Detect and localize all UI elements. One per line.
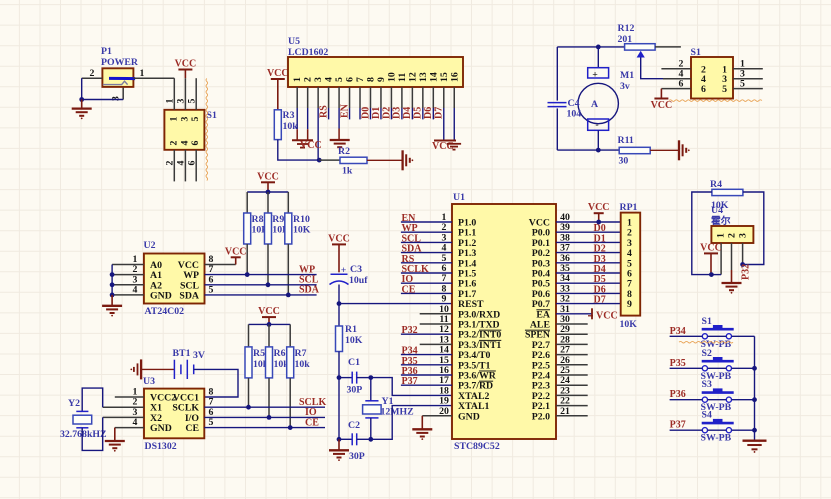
svg-text:A: A (591, 99, 598, 110)
wire VCC rail R5R6R7 (249, 323, 291, 325)
svg-text:1k: 1k (342, 166, 353, 177)
error squiggle under switch S1 (679, 341, 733, 343)
svg-text:P1: P1 (101, 46, 112, 57)
svg-text:U3: U3 (143, 376, 155, 387)
svg-text:STC89C52: STC89C52 (454, 441, 500, 452)
switch S2 button bar (702, 360, 734, 363)
wire P1 to S1 pin1 corner (173, 78, 175, 110)
svg-text:CE: CE (402, 284, 416, 295)
wire R9 top (267, 192, 269, 213)
switch S1 button bar (702, 328, 734, 331)
crystal Y1 bottom plate (365, 417, 378, 419)
svg-text:5: 5 (190, 116, 201, 121)
VCC power port at U1 pin 40 (598, 213, 600, 222)
svg-text:9: 9 (376, 77, 387, 82)
svg-text:3: 3 (111, 96, 122, 101)
capacitor C2 plates (351, 433, 353, 445)
junction dot top rail at motor (596, 45, 601, 50)
svg-text:5: 5 (209, 417, 214, 428)
U1 pin 13 stub (420, 343, 452, 345)
svg-text:P2.0: P2.0 (532, 411, 550, 422)
svg-text:U2: U2 (144, 240, 156, 251)
svg-text:R5: R5 (253, 348, 265, 359)
wire S2 contacts (708, 367, 727, 369)
svg-text:S4: S4 (702, 410, 712, 421)
svg-text:POWER: POWER (101, 57, 139, 68)
motor M1 minus terminal box (588, 119, 609, 130)
wire R6 bottom to IO (268, 378, 270, 417)
wire R8 bottom to WP (246, 244, 248, 275)
resistor R4 body (712, 189, 743, 195)
svg-text:R12: R12 (618, 23, 635, 34)
svg-text:10K: 10K (293, 225, 311, 236)
svg-text:S1: S1 (207, 110, 217, 121)
U1 pin 40 wire to RP1 pin 1 (556, 221, 621, 223)
P1 pin 3 wire down and left to ground node (122, 88, 124, 100)
resistor R6 body (266, 347, 273, 378)
svg-text:30P: 30P (347, 385, 363, 396)
wire R4 left down to VCC node (692, 192, 712, 275)
wire R6 top (268, 324, 270, 347)
P1 pin 1 wire to S1 (133, 77, 174, 79)
ground below U4 pin2 (722, 282, 742, 284)
U3 IO wire (204, 416, 325, 418)
U1 pin 14 wire with net label P34 (401, 354, 452, 356)
wire S1 to bus (732, 335, 755, 337)
U4 pin1 line down (720, 243, 722, 275)
U1 pin 29 stub (556, 333, 588, 335)
resistor R8 body (244, 213, 251, 244)
U2 left pin wires (112, 264, 144, 266)
U1 pin 34 wire to RP1 pin 7 (556, 282, 621, 284)
junction dot crystal bottom node (368, 437, 373, 442)
ground below C2 column (338, 439, 340, 450)
U4 pin3 line down (742, 243, 744, 265)
U3 CE wire (204, 427, 325, 429)
svg-text:CE: CE (305, 417, 319, 428)
svg-text:4: 4 (176, 160, 187, 165)
S1 connector body (164, 110, 204, 150)
U1 pin 7 wire with net label IO (401, 282, 452, 284)
svg-text:RS: RS (319, 105, 330, 118)
U1 pin 16 wire with net label P36 (401, 374, 452, 376)
svg-text:6: 6 (190, 140, 201, 145)
svg-text:S1: S1 (702, 316, 712, 327)
wire R5 top (248, 324, 250, 347)
P1 pin 2 wire (82, 77, 103, 79)
bottom rail wire (557, 149, 619, 151)
U1 body (452, 204, 556, 439)
resistor R1 body (336, 326, 343, 352)
svg-text:5: 5 (740, 78, 745, 89)
U1 pin 10 stub (420, 313, 452, 315)
svg-text:P36: P36 (670, 389, 686, 400)
U1 pin 12 wire with net label P32 (401, 333, 452, 335)
LCD1602 header body (288, 57, 463, 87)
wire R8 top (246, 192, 248, 213)
svg-text:8: 8 (365, 77, 376, 82)
svg-text:GND: GND (150, 290, 172, 301)
U1 pin 3 wire with net label SCL (401, 241, 452, 243)
svg-text:D7: D7 (594, 295, 606, 306)
wire ground to battery (141, 368, 174, 370)
resistor R3 body (274, 110, 281, 140)
svg-text:7: 7 (355, 77, 366, 82)
wire C3 to REST node (338, 285, 340, 304)
wire S3 to bus (732, 399, 755, 401)
svg-text:15: 15 (439, 72, 450, 82)
wire R5 bottom to SCLK (248, 378, 250, 407)
S1 pin6 wire to VCC (661, 88, 691, 90)
svg-text:VCC: VCC (328, 233, 350, 244)
svg-text:-: - (595, 120, 598, 131)
svg-text:VCC: VCC (258, 306, 280, 317)
svg-text:14: 14 (428, 72, 439, 82)
svg-text:9: 9 (627, 299, 632, 310)
svg-text:4: 4 (133, 284, 138, 295)
svg-text:6: 6 (701, 84, 706, 95)
wire pin2 down to ground node (81, 78, 83, 99)
svg-text:10uf: 10uf (349, 275, 368, 286)
wire crystal Y2 bottom loop to X2 (82, 417, 103, 450)
connector P1 body (102, 68, 133, 87)
wire P34 to S1 (670, 335, 703, 337)
svg-text:C1: C1 (348, 357, 360, 368)
motor M1 wire from top rail (597, 47, 599, 68)
svg-text:1: 1 (292, 77, 303, 82)
wire R10 top (287, 192, 289, 213)
wire C2 row left (339, 438, 352, 440)
ground at U1 pin 20 (421, 416, 423, 430)
S1 pin 3 line (184, 78, 186, 110)
S1 pin 5 line (195, 78, 197, 110)
switch S3 contacts (702, 397, 707, 402)
svg-text:C4: C4 (568, 98, 580, 109)
U3 body (144, 389, 204, 439)
svg-text:GND: GND (458, 411, 480, 422)
switch lever inside P1 (109, 77, 135, 80)
wire crystal bottom (370, 418, 372, 439)
svg-text:VCC: VCC (588, 202, 610, 213)
wire R12 right stub (655, 46, 681, 48)
svg-text:D1: D1 (371, 107, 382, 119)
svg-text:VCC: VCC (267, 68, 289, 79)
wire R2 to right ground (367, 159, 403, 161)
svg-text:VCC: VCC (175, 59, 197, 70)
svg-text:2: 2 (303, 77, 314, 82)
U1 pin 25 stub (556, 374, 588, 376)
svg-text:11: 11 (397, 73, 408, 82)
svg-text:6: 6 (345, 77, 356, 82)
wire P36 to S3 (670, 399, 703, 401)
ground right of R2 rotated (401, 150, 403, 170)
wire S3 contacts (708, 399, 727, 401)
U1 pin 35 wire to RP1 pin 6 (556, 272, 621, 274)
svg-text:R10: R10 (293, 214, 310, 225)
U3 pin2 wire to crystal (103, 406, 144, 408)
R3 bottom wire to divider node (278, 140, 319, 161)
wire VCC rail of pullups (247, 191, 288, 193)
U1 pin 21 stub (556, 415, 588, 417)
svg-text:U5: U5 (288, 36, 300, 47)
wire divider node to R2 (319, 159, 340, 161)
svg-text:104: 104 (567, 109, 582, 120)
svg-text:VCC: VCC (651, 100, 673, 111)
svg-text:P35: P35 (670, 358, 686, 369)
svg-text:3v: 3v (620, 81, 630, 92)
S1 pin2 stub (661, 68, 691, 70)
U1 pin 8 wire with net label CE (401, 292, 452, 294)
svg-text:1: 1 (168, 116, 179, 121)
svg-text:VCC: VCC (700, 242, 722, 253)
wire REST node to U1 pin9 (339, 303, 452, 305)
wire left column R1C1C2 (338, 378, 340, 440)
svg-text:VCC: VCC (257, 171, 279, 182)
svg-text:+: + (592, 70, 598, 81)
U1 pin 33 wire to RP1 pin 8 (556, 292, 621, 294)
svg-text:BT1: BT1 (173, 348, 191, 359)
ground right of R11 rotated (678, 140, 680, 160)
U1 pin 11 stub (420, 323, 452, 325)
U1 pin 31 EA wire to VCC (556, 313, 592, 315)
wire S1 contacts (708, 335, 727, 337)
svg-text:4: 4 (179, 140, 190, 145)
U2 SDA wire (205, 294, 317, 296)
svg-text:R2: R2 (338, 146, 350, 157)
svg-text:CE: CE (185, 423, 199, 434)
svg-text:P32: P32 (741, 264, 752, 280)
junction dot C1 left (337, 375, 342, 380)
junction dot REST node (337, 301, 342, 306)
resistor R2 body (340, 157, 367, 163)
switch S1 contacts (702, 334, 707, 339)
svg-text:1: 1 (140, 68, 145, 79)
junction dot crystal top node (368, 375, 373, 380)
svg-text:30: 30 (619, 156, 629, 167)
svg-text:P37: P37 (670, 420, 686, 431)
svg-text:3: 3 (179, 116, 190, 121)
svg-text:R7: R7 (295, 348, 307, 359)
svg-text:3: 3 (313, 77, 324, 82)
crystal Y2 body (73, 415, 92, 424)
svg-text:5: 5 (334, 77, 345, 82)
svg-text:D0: D0 (360, 107, 371, 119)
svg-text:VCC: VCC (596, 310, 618, 321)
motor M1 circle (578, 83, 618, 123)
svg-text:2: 2 (727, 233, 738, 238)
junction dot bus at S2 (752, 366, 757, 371)
svg-text:C3: C3 (350, 264, 362, 275)
capacitor C4 left branch wire upper (556, 47, 558, 101)
svg-text:D3: D3 (392, 107, 403, 119)
U3 SCLK wire (204, 406, 325, 408)
svg-text:D6: D6 (423, 107, 434, 119)
junction dot U4 pin3 P32 (740, 262, 745, 267)
svg-text:3V: 3V (193, 350, 205, 361)
VCC power port at U2 pin8 (235, 257, 237, 264)
wire R7 bottom to CE (289, 378, 291, 428)
svg-text:R9: R9 (272, 214, 284, 225)
VCC power port above R5 R6 R7 (268, 317, 270, 324)
svg-text:32.768kHZ: 32.768kHZ (60, 429, 107, 440)
switch S4 contacts (702, 428, 707, 433)
U1 pin 37 wire to RP1 pin 4 (556, 252, 621, 254)
svg-text:D2: D2 (381, 107, 392, 119)
U1 pin 23 stub (556, 394, 588, 396)
svg-text:R8: R8 (252, 214, 264, 225)
svg-text:5: 5 (209, 284, 214, 295)
resistor R9 body (265, 213, 272, 244)
ground under LCD pin5 RW (330, 139, 350, 141)
wire S4 contacts (708, 429, 727, 431)
svg-text:12: 12 (407, 72, 418, 82)
wire R9 bottom to SCL (267, 244, 269, 285)
svg-text:12MHZ: 12MHZ (381, 407, 415, 418)
U2 WP wire (205, 274, 317, 276)
svg-text:30P: 30P (349, 451, 365, 462)
U1 pin 39 wire to RP1 pin 2 (556, 231, 621, 233)
RP1 body (621, 213, 641, 316)
svg-text:P34: P34 (670, 326, 686, 337)
svg-text:S2: S2 (702, 348, 712, 359)
svg-text:4: 4 (324, 77, 335, 82)
VCC power port below S1 pin6 (654, 98, 668, 100)
wire top rail (557, 46, 624, 48)
U1 pin 22 stub (556, 405, 588, 407)
svg-text:D7: D7 (434, 107, 445, 119)
svg-text:U4: U4 (711, 205, 723, 216)
svg-text:R3: R3 (283, 110, 295, 121)
svg-text:P37: P37 (402, 376, 418, 387)
wire P37 to S4 (670, 429, 703, 431)
svg-text:1: 1 (165, 98, 176, 103)
wire C2 right to crystal node (357, 438, 371, 440)
svg-text:SW-PB: SW-PB (701, 433, 732, 444)
wire R1 bottom to C1 node (338, 352, 340, 378)
svg-text:10k: 10k (295, 359, 311, 370)
resistor R7 body (287, 347, 294, 378)
svg-text:R1: R1 (345, 324, 357, 335)
U1 pin 32 wire to RP1 pin 9 (556, 303, 621, 305)
ground below U2 left wire (111, 295, 113, 306)
wire R11 to ground (650, 149, 679, 151)
U4 body (711, 226, 753, 243)
svg-text:VCC: VCC (300, 140, 322, 151)
crystal Y1 body (363, 405, 382, 414)
wire VCC node to pin1 (711, 274, 721, 276)
U4 pin2 line down to ground (731, 243, 733, 270)
crystal Y1 top plate (365, 400, 378, 402)
header S1 body (691, 57, 733, 99)
U1 pin 26 stub (556, 364, 588, 366)
VCC bar and ground overlapped under LCD pins 15-16 (434, 140, 456, 142)
svg-text:10K: 10K (345, 335, 363, 346)
VCC power port above S1 connector (184, 70, 186, 79)
wire S4 to bus (732, 429, 755, 431)
capacitor C4 plates (548, 102, 567, 104)
U2 body (144, 254, 205, 304)
svg-text:R6: R6 (274, 348, 286, 359)
motor M1 wire to bottom rail (597, 130, 599, 150)
resistor R10 body (285, 213, 292, 244)
wire to C1 left plate (339, 377, 352, 379)
resistor R11 body (619, 147, 650, 153)
wire R10 bottom to SDA (287, 244, 289, 295)
wire crystal top (370, 378, 372, 401)
wiper wire down to S1 pin4 (641, 58, 663, 79)
svg-text:Y2: Y2 (68, 398, 80, 409)
wire S2 to bus (732, 367, 755, 369)
svg-text:C2: C2 (348, 420, 360, 431)
svg-text:DS1302: DS1302 (145, 441, 177, 452)
svg-text:RP1: RP1 (620, 202, 638, 213)
U1 pin 1 wire with net label EN (401, 221, 452, 223)
battery BT1 plates (173, 360, 175, 379)
S1 pin4 pin line (663, 78, 691, 80)
U1 pin 30 stub (556, 323, 588, 325)
svg-text:16: 16 (449, 72, 460, 82)
U1 pin 38 wire to RP1 pin 3 (556, 241, 621, 243)
U1 pin 17 wire with net label P37 (401, 384, 452, 386)
ground below P1 (81, 100, 83, 109)
U1 pin 20 GND wire (422, 415, 452, 417)
resistor R5 body (245, 347, 252, 378)
svg-text:10k: 10k (283, 121, 299, 132)
ground at U3 GND (114, 428, 116, 441)
LCD pin lines (296, 87, 298, 108)
VCC power port above R8 R9 R10 (267, 182, 269, 192)
switch S2 contacts (702, 366, 707, 371)
junction dot bus at S3 (752, 397, 757, 402)
crystal Y2 bottom plate (76, 427, 88, 429)
svg-text:1: 1 (716, 233, 727, 238)
U3 pin4 wire (115, 427, 144, 429)
svg-text:EN: EN (340, 103, 351, 118)
U2 left common vertical wire (111, 265, 113, 295)
VCC power port at U4 pin1 (710, 253, 712, 274)
junction dot bottom rail at motor (596, 148, 601, 153)
svg-text:2: 2 (90, 68, 95, 79)
capacitor C3 top plate (331, 273, 348, 275)
U1 pin 24 stub (556, 384, 588, 386)
U2 pin8 wire to VCC (205, 264, 236, 266)
svg-text:3: 3 (738, 233, 749, 238)
ground at switch bus (754, 439, 756, 442)
capacitor C1 plates (351, 372, 353, 384)
wire R4 right down to P32 node (743, 192, 764, 265)
svg-text:3: 3 (176, 98, 187, 103)
U1 pin 15 wire with net label P35 (401, 364, 452, 366)
U1 pin 5 wire with net label RS (401, 262, 452, 264)
U1 pin 2 wire with net label WP (401, 231, 452, 233)
wire R7 top (289, 324, 291, 347)
svg-text:SDA: SDA (179, 290, 199, 301)
S1 bottom pin lines 2 4 6 (173, 150, 175, 182)
wire crystal top node to XTAL2 (371, 378, 452, 396)
wire REST node down to R1 (338, 304, 340, 326)
S1 right pin stubs 1 3 5 (733, 68, 763, 70)
svg-text:D4: D4 (402, 107, 413, 119)
svg-text:10: 10 (386, 72, 397, 82)
U1 pin 27 stub (556, 354, 588, 356)
U1 pin 6 wire with net label SCLK (401, 272, 452, 274)
svg-text:R4: R4 (710, 179, 722, 190)
error squiggle right of S1 (206, 79, 208, 181)
svg-text:2: 2 (168, 140, 179, 145)
crystal Y2 top plate (76, 410, 88, 412)
U1 pin 28 stub (556, 343, 588, 345)
switch S4 button bar (702, 422, 734, 425)
